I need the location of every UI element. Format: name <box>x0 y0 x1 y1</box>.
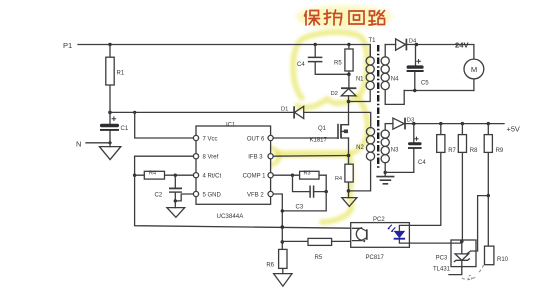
wire N2 bottom return <box>349 160 371 191</box>
resistor R3 <box>293 171 327 180</box>
node N <box>76 139 81 148</box>
resistor R4 <box>135 171 194 180</box>
wire Vcc tap down to pin 7 <box>133 111 193 138</box>
highlighter ring around IFB pin 3 <box>258 148 279 165</box>
svg-text:IFB 3: IFB 3 <box>248 155 263 161</box>
svg-text:5 GND: 5 GND <box>203 192 222 198</box>
wire N4 top to D4 <box>385 44 395 46</box>
wire GND pin 5 to C2 bottom <box>174 194 194 203</box>
junction rail/R9 <box>487 122 490 125</box>
junction Vref/R4 <box>133 174 136 177</box>
resistor R4 sense <box>335 156 353 191</box>
winding N2 <box>356 128 374 161</box>
resistor R9 <box>484 124 504 247</box>
winding N3 <box>381 124 399 173</box>
capacitor C4 snubber <box>297 43 349 75</box>
svg-text:D1: D1 <box>281 107 288 113</box>
wire N to C1 bottom <box>86 141 112 144</box>
svg-text:M: M <box>471 65 477 74</box>
motor M <box>464 59 484 90</box>
svg-text:OUT 6: OUT 6 <box>247 136 265 142</box>
svg-text:UC3844A: UC3844A <box>217 213 245 220</box>
net label 24V <box>455 41 469 50</box>
resistor R7 <box>409 124 456 226</box>
pin 6 OUT <box>247 135 273 142</box>
svg-text:D2: D2 <box>331 91 338 97</box>
char 路 <box>369 11 385 26</box>
svg-text:N4: N4 <box>391 77 399 83</box>
svg-text:7 Vcc: 7 Vcc <box>203 136 218 142</box>
svg-text:4 Rt/Ct: 4 Rt/Ct <box>203 174 222 180</box>
svg-text:R8: R8 <box>470 148 478 154</box>
resistor R10 <box>485 246 509 265</box>
svg-text:PC2: PC2 <box>373 217 385 223</box>
resistor R5 snubber <box>334 43 353 75</box>
highlighter glow behind red text <box>296 6 392 28</box>
junction R4/C2/RtCt <box>174 174 177 177</box>
char 护 <box>324 10 342 25</box>
svg-text:P1: P1 <box>63 41 72 50</box>
wire 24V rail <box>406 45 474 60</box>
svg-text:C3: C3 <box>296 204 304 210</box>
svg-text:R7: R7 <box>448 148 456 154</box>
grey pencil dashed arc near TL431 <box>462 262 484 280</box>
junction VFB/R6/R5 <box>281 240 285 244</box>
svg-text:C4: C4 <box>418 160 426 166</box>
junction N3 bottom / C4 return <box>384 171 414 174</box>
optocoupler PC2 PC817 <box>351 217 410 261</box>
junction snubber bottom <box>347 73 351 77</box>
svg-text:C4: C4 <box>297 62 305 68</box>
junction TL431 cathode node <box>460 239 464 243</box>
pin 1 COMP <box>243 173 274 180</box>
svg-text:R4: R4 <box>149 171 156 177</box>
wire +5V rail <box>405 123 504 125</box>
capacitor C3 <box>293 175 327 210</box>
highlighter loop around snubber protection circuit <box>293 32 367 107</box>
char 回 <box>349 11 364 24</box>
svg-text:R5: R5 <box>315 255 323 261</box>
svg-text:+5V: +5V <box>507 125 520 134</box>
svg-text:IC1: IC1 <box>226 123 236 129</box>
net label +5V <box>507 125 520 134</box>
svg-text:N: N <box>76 139 81 148</box>
svg-text:K1817: K1817 <box>310 138 328 144</box>
char 保 <box>305 11 320 26</box>
resistor R5 <box>282 238 350 261</box>
junction R4 sense bottom <box>347 189 351 193</box>
transformer T1 core <box>369 38 379 170</box>
pin 5 GND <box>193 191 221 198</box>
ANNOT <box>305 10 485 280</box>
resistor R8 <box>458 124 478 242</box>
transistor Q1 MOSFET K1817 <box>310 102 349 156</box>
junction rail/C4 <box>412 122 415 125</box>
diode D1 <box>281 106 304 118</box>
junction VFB/frame <box>281 225 285 229</box>
wire 24V return rail <box>404 89 474 92</box>
svg-text:N2: N2 <box>356 145 364 151</box>
svg-text:R9: R9 <box>496 148 504 154</box>
svg-text:C2: C2 <box>155 192 163 198</box>
red handwritten text 保护回路 (protection circuit) <box>305 10 385 25</box>
wire compensation network to VFB column <box>282 192 326 211</box>
svg-text:R1: R1 <box>117 71 125 77</box>
svg-text:R5: R5 <box>334 61 342 67</box>
HIGHLIGHTS <box>258 6 392 222</box>
wire COMP pin 1 <box>273 174 294 177</box>
capacitor C5 <box>407 45 430 91</box>
highlighter stroke from snubber loop down to sense node <box>349 97 368 154</box>
junction R9/TL431 ref <box>487 194 490 197</box>
wire IFB pin 3 current sense <box>273 155 348 158</box>
diode D3 <box>393 117 414 129</box>
svg-text:VFB 2: VFB 2 <box>247 192 264 198</box>
svg-text:PC3: PC3 <box>436 255 448 261</box>
winding N4 <box>381 45 404 105</box>
svg-text:T1: T1 <box>369 38 377 44</box>
wire P1 top rail to transformer N1 <box>78 45 370 57</box>
winding N1 <box>356 45 374 90</box>
ground below C1 <box>99 143 120 160</box>
junction R1/C1/D1/Vcc node <box>108 111 112 115</box>
svg-text:C1: C1 <box>121 126 129 132</box>
wire Vref pin 8 feedback frame to optocoupler <box>135 156 351 228</box>
junction rail/R7 <box>439 122 442 125</box>
svg-text:TL431: TL431 <box>433 267 451 273</box>
svg-text:24V: 24V <box>455 41 469 50</box>
wire D1 row from Vcc node to aux winding N2 <box>110 112 371 127</box>
resistor R6 <box>266 242 287 274</box>
phototransistor inside PC2 <box>353 228 367 243</box>
capacitor C4 output <box>408 124 426 173</box>
svg-text:8 Vref: 8 Vref <box>203 155 219 161</box>
pin 3 IFB <box>248 154 273 161</box>
highlighter band along IFB wire <box>278 150 347 158</box>
wire N3 top to D3 <box>385 123 393 125</box>
wire VFB pin 2 down column <box>273 194 282 242</box>
resistor R1 <box>106 45 125 113</box>
svg-text:N1: N1 <box>356 77 364 83</box>
ground below C2 <box>167 201 185 217</box>
junction D4/C5 <box>415 43 419 47</box>
junction source/IFB/R4 sense <box>347 154 351 158</box>
wire OUT pin 6 gate drive <box>273 137 338 139</box>
wire drain node to N1 bottom <box>349 90 371 102</box>
pin 7 Vcc <box>193 135 217 142</box>
svg-text:Q1: Q1 <box>318 126 327 132</box>
node P1 <box>63 41 72 50</box>
diode D4 <box>396 39 417 51</box>
capacitor C2 <box>155 175 183 201</box>
pin 8 Vref <box>193 154 218 161</box>
svg-text:N3: N3 <box>391 148 399 154</box>
pin 2 VFB <box>247 191 273 198</box>
junction P1/R1 <box>108 43 111 46</box>
junction drain node <box>347 100 351 104</box>
diode D2 <box>331 74 357 101</box>
ground below R6 <box>274 274 292 287</box>
svg-text:PC817: PC817 <box>366 255 385 261</box>
junction C3 network bottom <box>325 190 328 193</box>
shunt regulator PC3 TL431 <box>433 196 488 275</box>
svg-text:C5: C5 <box>421 81 429 87</box>
op-amp U1 UC3844A body <box>196 123 271 220</box>
capacitor C1 <box>100 112 129 142</box>
svg-text:R3: R3 <box>304 171 311 177</box>
junction rail/R8 <box>461 122 464 125</box>
earth ground below N3 <box>376 172 394 183</box>
wire PC2 cathode to TL431 node <box>409 241 461 243</box>
svg-text:R6: R6 <box>266 262 274 268</box>
svg-text:R4: R4 <box>335 176 342 182</box>
svg-text:R10: R10 <box>497 257 509 263</box>
pin 4 Rt/Ct <box>193 173 221 180</box>
junction VFB/comp <box>281 209 284 212</box>
LED inside PC2 <box>388 225 410 243</box>
svg-text:COMP 1: COMP 1 <box>243 174 267 180</box>
ground below sense resistor <box>342 191 357 207</box>
highlighter stroke along sense resistor to ground <box>322 156 352 222</box>
